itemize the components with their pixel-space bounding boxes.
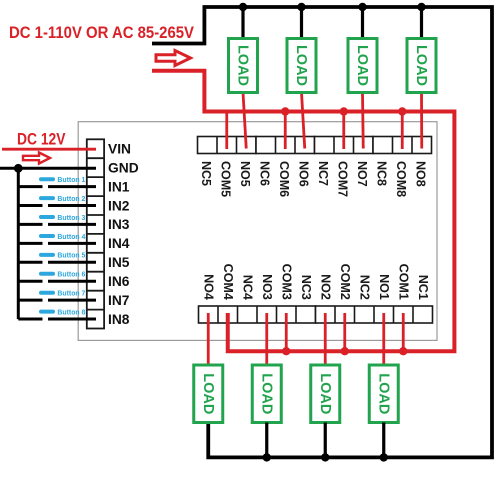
button Button 1 (pushbutton actuator): [41, 177, 53, 181]
wire NO2 terminal to LOAD2: [324, 313, 327, 365]
svg-text:NO5: NO5: [238, 161, 252, 187]
svg-text:NC4: NC4: [240, 275, 254, 300]
wire LOAD8 to NO8 terminal: [420, 93, 423, 149]
svg-text:NO2: NO2: [318, 274, 332, 300]
svg-text:NO6: NO6: [297, 161, 311, 187]
svg-text:LOAD: LOAD: [293, 45, 309, 86]
svg-text:Button 4: Button 4: [57, 232, 86, 241]
svg-text:Button 2: Button 2: [57, 194, 85, 203]
wire black bus to LOAD8: [420, 7, 423, 39]
svg-text:NC6: NC6: [258, 161, 272, 186]
wire bus to Button 8: [18, 318, 42, 321]
svg-text:IN4: IN4: [108, 236, 130, 251]
wire COM1 terminal to red bus: [402, 313, 405, 351]
wire red COM bus to COM8: [401, 112, 404, 150]
relay module outline: [78, 122, 437, 341]
junction on black bus at LOAD7: [358, 3, 366, 11]
wire Button 2 to IN2: [48, 204, 96, 207]
svg-text:IN1: IN1: [108, 179, 130, 194]
junction on red bus at COM6: [281, 107, 289, 115]
wire bus to Button 1: [18, 185, 42, 188]
wire Button 7 to IN7: [48, 299, 96, 302]
button Button 3 (pushbutton actuator): [41, 215, 53, 219]
svg-text:COM5: COM5: [219, 161, 233, 197]
svg-text:LOAD: LOAD: [200, 373, 216, 414]
svg-text:NO3: NO3: [260, 274, 274, 300]
wire LOAD6 to NO6 terminal: [302, 93, 305, 149]
svg-text:NC7: NC7: [316, 161, 330, 186]
wire Button 6 to IN6: [48, 280, 96, 283]
wire COM3 terminal to red bus: [285, 313, 288, 351]
svg-text:DC 1-110V OR AC 85-265V: DC 1-110V OR AC 85-265V: [9, 24, 194, 42]
svg-text:LOAD: LOAD: [235, 45, 251, 86]
terminal block bottom (relays 1-4): [199, 306, 433, 323]
wire bus to Button 3: [18, 223, 42, 226]
button Button 7 (pushbutton actuator): [41, 291, 53, 295]
AC source arrow: [156, 51, 191, 66]
svg-text:GND: GND: [108, 161, 139, 176]
svg-text:NO7: NO7: [355, 161, 369, 187]
wire LOAD7 to NO7 terminal: [361, 93, 365, 149]
wire Button 1 to IN1: [48, 185, 96, 188]
wire bus to Button 5: [18, 261, 42, 264]
svg-text:IN8: IN8: [108, 312, 130, 327]
wire bus to Button 6: [18, 280, 42, 283]
wire black bus to LOAD5: [241, 7, 244, 39]
wire NO4 terminal to LOAD4: [207, 313, 210, 365]
junction GND / button bus: [14, 164, 23, 173]
junction on black bus at LOAD3: [263, 453, 271, 461]
svg-text:COM4: COM4: [221, 264, 235, 300]
svg-text:NC2: NC2: [357, 275, 371, 300]
junction on red bus at COM7: [340, 107, 348, 115]
wire NO1 terminal to LOAD1: [382, 313, 385, 365]
svg-text:LOAD: LOAD: [375, 373, 391, 414]
svg-text:IN7: IN7: [108, 293, 130, 308]
svg-text:Button 5: Button 5: [57, 251, 85, 260]
wire Button 8 to IN8: [48, 318, 96, 321]
wire red COM bus to COM7: [342, 112, 345, 150]
svg-text:IN2: IN2: [108, 198, 130, 213]
svg-text:COM8: COM8: [394, 161, 408, 197]
svg-text:NO4: NO4: [201, 274, 215, 300]
junction on black bus at LOAD6: [297, 3, 305, 11]
load LOAD1 (bottom): [369, 365, 398, 423]
wire LOAD1 to black bus: [382, 423, 385, 458]
svg-text:DC 12V: DC 12V: [17, 131, 66, 149]
junction on red bus at COM3: [282, 347, 290, 355]
wire Button 3 to IN3: [48, 223, 96, 226]
pin header (VIN GND IN1-IN8): [87, 139, 104, 328]
wire bus to Button 7: [18, 299, 42, 302]
wire COM2 terminal to red bus: [343, 313, 346, 351]
load LOAD5 (top): [229, 39, 258, 93]
load LOAD8 (top): [407, 39, 436, 93]
wire AC neutral side (red): source to COM buses: [152, 71, 454, 351]
svg-text:NO8: NO8: [414, 161, 428, 187]
svg-text:IN6: IN6: [108, 274, 130, 289]
button Button 8 (pushbutton actuator): [41, 310, 53, 314]
svg-text:COM3: COM3: [279, 264, 293, 300]
junction on red bus at COM8: [398, 107, 406, 115]
junction on red bus at COM2: [341, 347, 349, 355]
svg-text:IN3: IN3: [108, 217, 130, 232]
wire bus to Button 2: [18, 204, 42, 207]
wire NO3 terminal to LOAD3: [265, 313, 268, 365]
svg-text:COM6: COM6: [277, 161, 291, 197]
load LOAD7 (top): [348, 39, 377, 93]
button Button 6 (pushbutton actuator): [41, 272, 53, 276]
junction on red bus at COM1: [399, 347, 407, 355]
svg-text:Button 3: Button 3: [57, 213, 85, 222]
wire button common bus: [17, 168, 20, 319]
button Button 2 (pushbutton actuator): [41, 196, 53, 200]
terminal block top (relays 5-8): [198, 137, 432, 154]
svg-text:LOAD: LOAD: [317, 373, 333, 414]
svg-text:NO1: NO1: [377, 274, 391, 300]
wire LOAD3 to black bus: [265, 423, 268, 458]
wire red COM bus to COM6: [284, 112, 287, 150]
svg-text:COM7: COM7: [336, 161, 350, 197]
junction on black bus at LOAD8: [417, 3, 425, 11]
wire red COM bus to COM5: [225, 112, 228, 150]
wire Button 4 to IN4: [48, 242, 96, 245]
wire Button 5 to IN5: [48, 261, 96, 264]
wire AC line side (black): source to top bus, right edge, bottom bus: [152, 7, 492, 457]
load LOAD6 (top): [287, 39, 316, 93]
svg-text:IN5: IN5: [108, 255, 130, 270]
svg-text:COM1: COM1: [396, 264, 410, 300]
load LOAD4 (bottom): [194, 365, 223, 423]
load LOAD2 (bottom): [311, 365, 340, 423]
wire GND: [0, 167, 96, 170]
svg-text:NC3: NC3: [299, 275, 313, 300]
wire LOAD2 to black bus: [324, 423, 327, 458]
button Button 4 (pushbutton actuator): [41, 234, 53, 238]
junction on black bus at LOAD1: [380, 453, 388, 461]
junction on black bus at LOAD5: [239, 3, 247, 11]
wire DC 12V to VIN: [2, 148, 96, 151]
wire black bus to LOAD6: [300, 7, 303, 39]
svg-text:Button 7: Button 7: [57, 289, 85, 298]
wire bus to Button 4: [18, 242, 42, 245]
load LOAD3 (bottom): [252, 365, 281, 423]
svg-text:Button 6: Button 6: [57, 270, 85, 279]
wire black bus to LOAD7: [361, 7, 364, 39]
wire LOAD5 to NO5 terminal: [243, 93, 246, 149]
svg-text:Button 8: Button 8: [57, 307, 85, 316]
svg-text:Button 1: Button 1: [57, 175, 85, 184]
junction on black bus at LOAD2: [321, 453, 329, 461]
svg-text:VIN: VIN: [108, 142, 131, 157]
svg-text:LOAD: LOAD: [258, 373, 274, 414]
svg-text:NC5: NC5: [199, 161, 213, 186]
button Button 5 (pushbutton actuator): [41, 253, 53, 257]
svg-text:NC8: NC8: [375, 161, 389, 186]
svg-text:NC1: NC1: [416, 275, 430, 300]
svg-text:LOAD: LOAD: [354, 45, 370, 86]
DC arrow: [23, 153, 50, 164]
svg-text:COM2: COM2: [338, 264, 352, 300]
svg-text:LOAD: LOAD: [413, 45, 429, 86]
